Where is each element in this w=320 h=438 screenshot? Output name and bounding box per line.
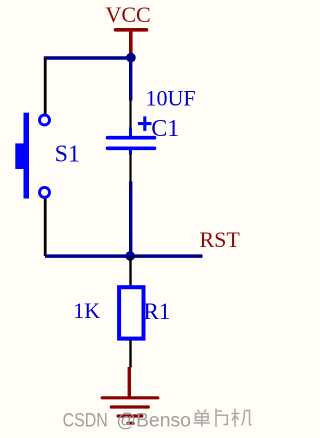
svg-text:S1: S1 <box>55 142 80 168</box>
capacitor C1 pin 2 (black) <box>129 154 131 182</box>
svg-text:RST: RST <box>200 227 241 252</box>
button S1 actuator bar <box>24 113 30 199</box>
svg-text:10UF: 10UF <box>146 86 196 111</box>
svg-text:C1: C1 <box>151 116 179 142</box>
ground bar 2 <box>111 405 148 408</box>
resistor R1 body <box>119 287 143 338</box>
ground bar 4 <box>128 422 133 425</box>
capacitor C1 bottom stub <box>129 148 132 155</box>
svg-text:VCC: VCC <box>106 2 151 27</box>
svg-text:1K: 1K <box>73 298 100 323</box>
button S1 top contact circle <box>40 115 50 125</box>
wire top horizontal <box>44 56 131 60</box>
watermark glyph pian <box>216 409 228 428</box>
resistor R1 pin 1 (black) <box>129 256 131 286</box>
ground bar 3 <box>118 414 142 417</box>
svg-text:CSDN: CSDN <box>63 410 108 431</box>
wire junction to capacitor <box>129 58 132 101</box>
junction node at RST <box>125 251 135 261</box>
junction node at VCC <box>126 53 136 63</box>
watermark glyph ji <box>232 409 252 428</box>
capacitor C1 bottom plate <box>108 147 155 151</box>
VCC stem <box>129 30 133 54</box>
wire bottom horizontal RST net <box>45 254 203 258</box>
ground stem <box>128 367 131 397</box>
resistor R1 pin 2 (black) <box>129 340 131 368</box>
button S1 knob <box>15 143 24 169</box>
capacitor C1 top stub <box>129 128 132 137</box>
VCC power bar symbol <box>116 28 147 32</box>
svg-text:R1: R1 <box>144 299 171 324</box>
button S1 pin 2 (black) <box>44 199 47 256</box>
capacitor C1 top plate <box>108 136 155 140</box>
watermark glyph dan <box>194 410 211 427</box>
wire capacitor to RST junction <box>129 182 132 256</box>
capacitor polarity plus sign <box>138 116 152 130</box>
svg-text:@Benso: @Benso <box>116 410 190 431</box>
capacitor C1 pin 1 (black) <box>129 101 131 129</box>
button S1 pin 1 (black) <box>44 58 47 114</box>
ground bar 1 <box>102 396 158 399</box>
button S1 bottom contact circle <box>40 187 50 197</box>
